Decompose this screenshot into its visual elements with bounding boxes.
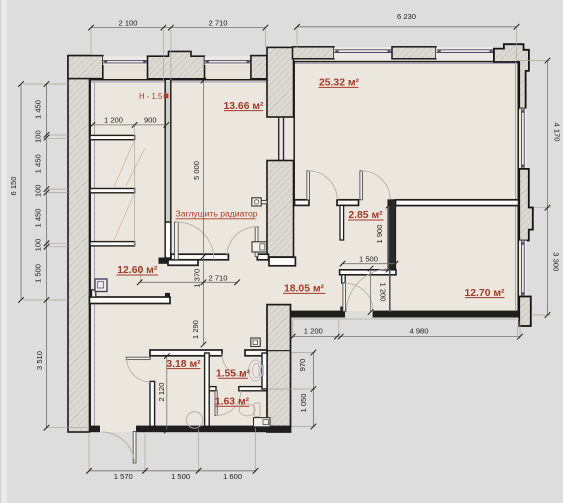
bottom wall of middle strip: east part xyxy=(373,311,520,318)
window W4 of 25.32 xyxy=(436,48,494,59)
door 3.18: swing arc xyxy=(127,358,151,382)
svg-text:6 150: 6 150 xyxy=(9,176,18,195)
inner face line of right wall xyxy=(517,61,519,311)
interior floor fill xyxy=(89,47,519,432)
door 12.70: swing arc xyxy=(346,269,389,312)
left exterior wall (hatched) xyxy=(68,56,90,432)
wardrobe swing marks xyxy=(114,141,145,240)
svg-text:6 230: 6 230 xyxy=(397,12,416,21)
dim line 970+1050 xyxy=(312,353,314,427)
bathroom wall line across shaft xyxy=(267,350,291,352)
dim line 1200 at 12.70 door xyxy=(370,269,372,313)
left chain dimension line xyxy=(46,84,48,428)
T wall block between 13.66 and 25.32 (upper) xyxy=(267,47,294,117)
svg-text:1 050: 1 050 xyxy=(299,393,308,412)
svg-text:2 710: 2 710 xyxy=(208,18,227,27)
closet 2.85 left wall xyxy=(340,205,344,240)
top wall pillar P1 (corner) xyxy=(68,56,103,79)
svg-text:5 000: 5 000 xyxy=(192,161,201,180)
divider wall foot jamb xyxy=(159,258,175,264)
bathroom block top wall: piece west of 1.55 door xyxy=(150,350,222,356)
door to niche (from 25.32): leaf xyxy=(307,171,310,200)
right wall window W5 xyxy=(519,109,527,169)
svg-text:2 120: 2 120 xyxy=(157,382,166,401)
dim line 2710 hall xyxy=(140,281,237,283)
door 12.60: swing arc xyxy=(176,222,214,260)
walls xyxy=(68,44,533,432)
door closet 2.85: swing arc xyxy=(361,171,390,200)
toilet in 1.63 xyxy=(239,403,260,417)
svg-text:4 170: 4 170 xyxy=(553,122,562,141)
dim line 1500 closet xyxy=(343,263,396,265)
door 13.66 south: swing arc xyxy=(227,227,257,257)
left dimension line 6150 xyxy=(20,84,22,300)
dim line 1900 vertical in 2.85 xyxy=(388,206,390,270)
svg-text:1 290: 1 290 xyxy=(191,320,200,339)
dim line 1200/900 in 12.60 xyxy=(92,124,166,126)
washbasin in 1.55 xyxy=(249,360,264,381)
door 12.70: leaf xyxy=(389,269,391,313)
jamb on top of 12.60 bottom wall xyxy=(165,293,170,297)
top wall window W2 lines xyxy=(205,57,251,66)
SE corner block xyxy=(519,297,531,327)
bottom wall of 12.60 xyxy=(90,297,171,304)
south wall of 25.32: bar between doors xyxy=(337,200,359,206)
floor: bottom wing (hall, 3.18, 1.55, 1.63) xyxy=(89,311,291,432)
svg-text:1 500: 1 500 xyxy=(359,254,378,263)
wardrobe shelf bar 1 in 12.60 xyxy=(90,135,135,139)
top wall of 25.32: band 1 xyxy=(293,47,335,59)
svg-text:1 450: 1 450 xyxy=(34,100,43,119)
electrical box in 12.60 xyxy=(95,279,107,292)
divider 1.55/1.63 piece west xyxy=(209,387,216,391)
shelf ends link line in 12.60 xyxy=(134,126,136,246)
thick wall between 2.85 and 12.70 xyxy=(388,200,396,269)
top wall window W1 lines xyxy=(103,57,148,66)
top dimension line 6230 xyxy=(297,26,517,28)
fixtures xyxy=(95,198,270,428)
corner box in 1.63 xyxy=(254,418,271,427)
svg-text:1 570: 1 570 xyxy=(114,472,133,481)
inner face line of left wall xyxy=(89,80,91,431)
floor: lighter zone under top windows xyxy=(90,56,267,80)
dim line 5000 vertical xyxy=(203,81,205,346)
3.18 left wall lower segment xyxy=(150,381,155,428)
svg-text:100: 100 xyxy=(34,130,43,143)
right wall pier (stepped) xyxy=(519,169,533,241)
svg-text:4 980: 4 980 xyxy=(409,327,428,336)
svg-text:1 370: 1 370 xyxy=(193,269,202,288)
svg-text:1 500: 1 500 xyxy=(34,264,43,283)
floor: top-left block (rooms 12.60 and 13.66) xyxy=(89,56,267,297)
1.55 east wall xyxy=(262,353,267,389)
svg-text:1 450: 1 450 xyxy=(34,154,43,173)
entry door: leaf xyxy=(133,432,136,464)
thin partition between blocks xyxy=(279,117,284,161)
balcony door: leaf xyxy=(343,283,346,311)
svg-text:1 450: 1 450 xyxy=(34,208,43,227)
dim line 1200+4980 bottom strip xyxy=(293,336,520,338)
svg-text:2 100: 2 100 xyxy=(118,18,137,27)
svg-text:970: 970 xyxy=(298,359,307,372)
wall stub below closet bottom xyxy=(342,275,346,283)
divider 1.55/1.63 piece east xyxy=(239,387,267,391)
balcony door: swing arc xyxy=(345,283,373,311)
svg-text:Заглушить радиатор: Заглушить радиатор xyxy=(176,209,258,219)
top wall of 12.70 xyxy=(396,200,519,206)
svg-text:100: 100 xyxy=(34,239,43,252)
svg-text:100: 100 xyxy=(34,184,43,197)
boiler circle in 3.18 xyxy=(186,412,202,428)
door 1.63: leaf xyxy=(215,391,217,416)
bottom exterior wall: west piece xyxy=(90,426,101,433)
extension lines right xyxy=(520,60,551,62)
NE corner block (stepped) xyxy=(494,44,529,108)
door 3.18: leaf xyxy=(126,357,150,359)
bottom wall of middle strip: west part xyxy=(291,311,346,318)
top dimension line 2100+2710 xyxy=(91,27,266,29)
door 1.55: swing arc xyxy=(222,354,245,377)
south wall of 25.32: west jamb piece xyxy=(295,200,310,206)
right wall window W6 xyxy=(519,241,527,297)
door 13.66 south: leaf xyxy=(255,227,258,257)
inner face line of 25.32 west wall xyxy=(293,62,295,200)
dim line 2120 vertical in 3.18 xyxy=(166,356,168,431)
svg-text:900: 900 xyxy=(144,116,157,125)
bottom dimension line xyxy=(89,470,256,472)
south wall jamb near divider xyxy=(257,254,268,260)
vent box above 1.55 xyxy=(251,338,260,347)
entry door: swing arc xyxy=(102,432,135,464)
bathroom block top wall: piece east of 1.55 door xyxy=(245,350,267,356)
door to niche: swing arc xyxy=(308,171,337,200)
inner face line of top-left wall xyxy=(90,79,268,81)
svg-text:Н - 1.5: Н - 1.5 xyxy=(139,92,163,101)
divider wall 12.60/13.66 xyxy=(165,80,171,222)
extension lines bottom xyxy=(88,434,90,473)
wardrobe shelf bar 2 in 12.60 xyxy=(90,189,135,193)
duct shaft (hatched) xyxy=(267,305,291,432)
svg-text:1 200: 1 200 xyxy=(378,282,387,301)
T wall block between 13.66 and 18.05 (lower) xyxy=(267,161,294,258)
floor: middle strip (18.05, 2.85, 12.70) xyxy=(89,199,519,311)
top wall pillar P3 xyxy=(251,56,267,79)
svg-text:1 200: 1 200 xyxy=(304,327,323,336)
closet 2.85 bottom wall xyxy=(340,270,396,275)
door 1.63: swing arc xyxy=(216,391,241,416)
extension lines bottom strip xyxy=(292,320,294,338)
shadow line below strip wall xyxy=(292,318,519,320)
lower bar piece at 12.60 SE corner xyxy=(168,260,198,266)
floor: room 25.32 xyxy=(267,47,519,200)
svg-text:2 710: 2 710 xyxy=(208,273,227,282)
extension lines 970/1050 xyxy=(292,352,316,354)
jamb at balcony door xyxy=(340,307,345,311)
extension at 2710 hall left xyxy=(139,265,141,284)
window W3 of 25.32 xyxy=(334,48,392,59)
svg-text:1 200: 1 200 xyxy=(104,116,123,125)
svg-text:1 900: 1 900 xyxy=(375,224,384,243)
top wall pillar P2 with notch xyxy=(148,51,205,78)
extension lines top xyxy=(90,30,92,56)
svg-text:3 300: 3 300 xyxy=(552,252,561,271)
south wall of 13.66 (bar) xyxy=(171,254,228,260)
svg-text:1 500: 1 500 xyxy=(171,472,190,481)
door 12.60: leaf xyxy=(175,222,179,260)
vent box at divider bottom xyxy=(252,242,267,252)
divider 3.18/1.55 xyxy=(205,353,210,428)
bottom exterior wall: main piece xyxy=(136,426,291,433)
extension lines left xyxy=(23,83,68,85)
north wall piece of 18.05 below T-block xyxy=(269,257,295,266)
openings-doors xyxy=(102,171,391,464)
right dimension line 4170+3300 xyxy=(547,61,549,316)
wardrobe shelf bar 3 in 12.60 xyxy=(90,242,135,246)
top wall of 25.32: band 2 xyxy=(392,47,436,59)
door closet 2.85: leaf xyxy=(360,171,363,200)
small wall return at west end of 12.60 bottom wall xyxy=(92,290,96,297)
inner face line of 25.32 top wall xyxy=(294,61,520,63)
radiator box in 13.66 xyxy=(261,200,267,203)
svg-text:1 600: 1 600 xyxy=(223,472,242,481)
svg-text:3 510: 3 510 xyxy=(35,351,44,370)
